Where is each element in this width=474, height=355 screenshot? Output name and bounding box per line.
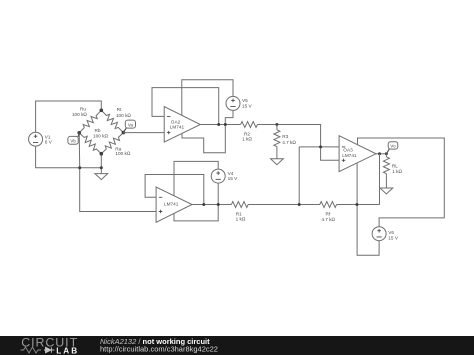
svg-text:OA3: OA3 xyxy=(343,148,353,153)
svg-text:V4: V4 xyxy=(228,171,234,176)
wire OA1 feedback (- input to output) xyxy=(145,175,204,205)
wire Va to OA2 + input xyxy=(123,132,164,134)
resistor RL (to ground) xyxy=(383,154,402,188)
node flag Va xyxy=(123,120,135,133)
resistor Rb (bridge bottom-left) xyxy=(77,131,103,156)
svg-text:LM741: LM741 xyxy=(342,153,357,158)
wire OA1 VS+ to V4 xyxy=(174,161,218,195)
voltage source V5 xyxy=(226,96,253,110)
ground (R3) xyxy=(271,159,284,165)
voltage source V6 xyxy=(372,227,399,241)
node Va (bridge right vertex) xyxy=(122,131,126,135)
junction dot OA2 output / supply tie xyxy=(224,123,227,126)
junction dot OA2 output / feedback xyxy=(217,123,220,126)
resistor R1 xyxy=(231,202,248,208)
svg-text:LAB: LAB xyxy=(56,346,79,355)
svg-text:1 kΩ: 1 kΩ xyxy=(242,137,252,142)
wire OA1 VS- loop to output node xyxy=(174,205,218,221)
svg-text:100 kΩ: 100 kΩ xyxy=(93,133,108,138)
node Vb (bridge left vertex) xyxy=(77,131,81,135)
svg-text:1 kΩ: 1 kΩ xyxy=(236,217,246,222)
wire V6 minus loop to bottom node xyxy=(357,205,379,256)
op-amp OA3 LM741 xyxy=(339,136,376,172)
junction dot bottom rail / ground stem xyxy=(100,166,103,169)
wire OA3 VS+ loop to V6 top xyxy=(358,138,445,227)
wire Rf to feedback corner xyxy=(337,204,380,206)
svg-text:4.7 kΩ: 4.7 kΩ xyxy=(282,140,296,145)
svg-text:15 V: 15 V xyxy=(228,176,239,181)
node flag Vb xyxy=(68,133,79,144)
junction dot Rf node / OA3 VS- / V6 minus xyxy=(355,203,358,206)
resistor Rt (bridge top-right) xyxy=(99,108,125,135)
svg-text:Va: Va xyxy=(128,122,134,127)
resistor R3 (to ground) xyxy=(274,125,296,159)
wire OA3 - input node xyxy=(299,146,339,148)
ground (bridge) xyxy=(95,174,108,180)
junction dot Vb column / bottom rail xyxy=(78,166,81,169)
svg-text:15 V: 15 V xyxy=(388,235,399,240)
svg-text:R1: R1 xyxy=(236,211,242,216)
svg-text:6 V: 6 V xyxy=(45,140,53,145)
wire feedback from bottom node up to output xyxy=(379,154,381,205)
svg-text:100 kΩ: 100 kΩ xyxy=(115,151,130,156)
wire OA2 VS- loop to output node xyxy=(182,125,225,153)
resistor Rf xyxy=(320,202,337,208)
resistor R2 xyxy=(241,122,258,128)
junction dot OA1 output / supply tie xyxy=(217,203,220,206)
resistor Ru (bridge top-left) xyxy=(77,108,103,135)
op-amp OA1 LM741 (lower) xyxy=(156,187,192,222)
svg-text:Rf: Rf xyxy=(325,211,330,216)
ground (RL) xyxy=(380,188,393,194)
node Vo (OA3 output / RL) xyxy=(385,152,388,155)
junction dot OA3 output / feedback xyxy=(378,152,381,155)
svg-text:http://circuitlab.com/c3har8kg: http://circuitlab.com/c3har8kg42c22 xyxy=(100,345,218,354)
svg-text:Ru: Ru xyxy=(80,106,86,111)
svg-text:4.7 kΩ: 4.7 kΩ xyxy=(321,217,335,222)
svg-text:100 kΩ: 100 kΩ xyxy=(116,113,131,118)
wire OA2 feedback (- input to output) xyxy=(152,88,219,125)
svg-text:Vb: Vb xyxy=(70,138,76,143)
svg-text:1 kΩ: 1 kΩ xyxy=(392,169,402,174)
voltage source V1 xyxy=(29,132,53,146)
junction dot OA3 - input node xyxy=(319,145,322,148)
wire OA3 output xyxy=(376,153,386,155)
svg-text:Rt: Rt xyxy=(117,107,122,112)
svg-text:15 V: 15 V xyxy=(242,103,253,108)
resistor Ra (bridge bottom-right) xyxy=(99,130,125,155)
wire - node down to R1/Rf junction xyxy=(298,147,300,205)
node flag Vo xyxy=(386,142,397,154)
svg-text:LM741: LM741 xyxy=(164,202,179,207)
wire R1 to Rf xyxy=(248,204,320,206)
wire V5 minus to output node xyxy=(225,110,233,124)
wire V4 minus down to output node xyxy=(217,183,219,205)
svg-text:100 kΩ: 100 kΩ xyxy=(72,112,87,117)
junction dot R1/Rf node to OA3 - input xyxy=(298,203,301,206)
node bridge bottom vertex xyxy=(100,152,104,156)
node bridge top vertex xyxy=(100,109,104,113)
wire R2 to OA3 input node xyxy=(257,125,339,161)
svg-text:R3: R3 xyxy=(282,134,288,139)
wire V1 bottom rail xyxy=(36,146,102,168)
junction dot OA1 output / feedback xyxy=(202,203,205,206)
wire bridge bottom stem to ground xyxy=(100,154,102,174)
wire OA2 output xyxy=(200,124,240,126)
svg-text:LM741: LM741 xyxy=(170,125,185,130)
svg-text:RL: RL xyxy=(392,163,398,168)
wire OA1 output xyxy=(192,204,231,206)
footer bar xyxy=(0,336,474,355)
wire OA3 VS- down to bottom node xyxy=(356,163,358,205)
voltage source V4 xyxy=(211,169,238,183)
wire V1 top rail to bridge top xyxy=(36,101,102,132)
logo squiggle resistor xyxy=(21,347,42,353)
svg-text:Vo: Vo xyxy=(390,144,396,149)
wire Vb node down and to OA1 + input xyxy=(79,133,156,212)
op-amp OA2 LM741 xyxy=(164,107,200,143)
logo diode xyxy=(44,347,54,353)
junction dot R2/R3 node xyxy=(275,123,278,126)
wire OA2 VS+ to V5 xyxy=(182,80,233,116)
